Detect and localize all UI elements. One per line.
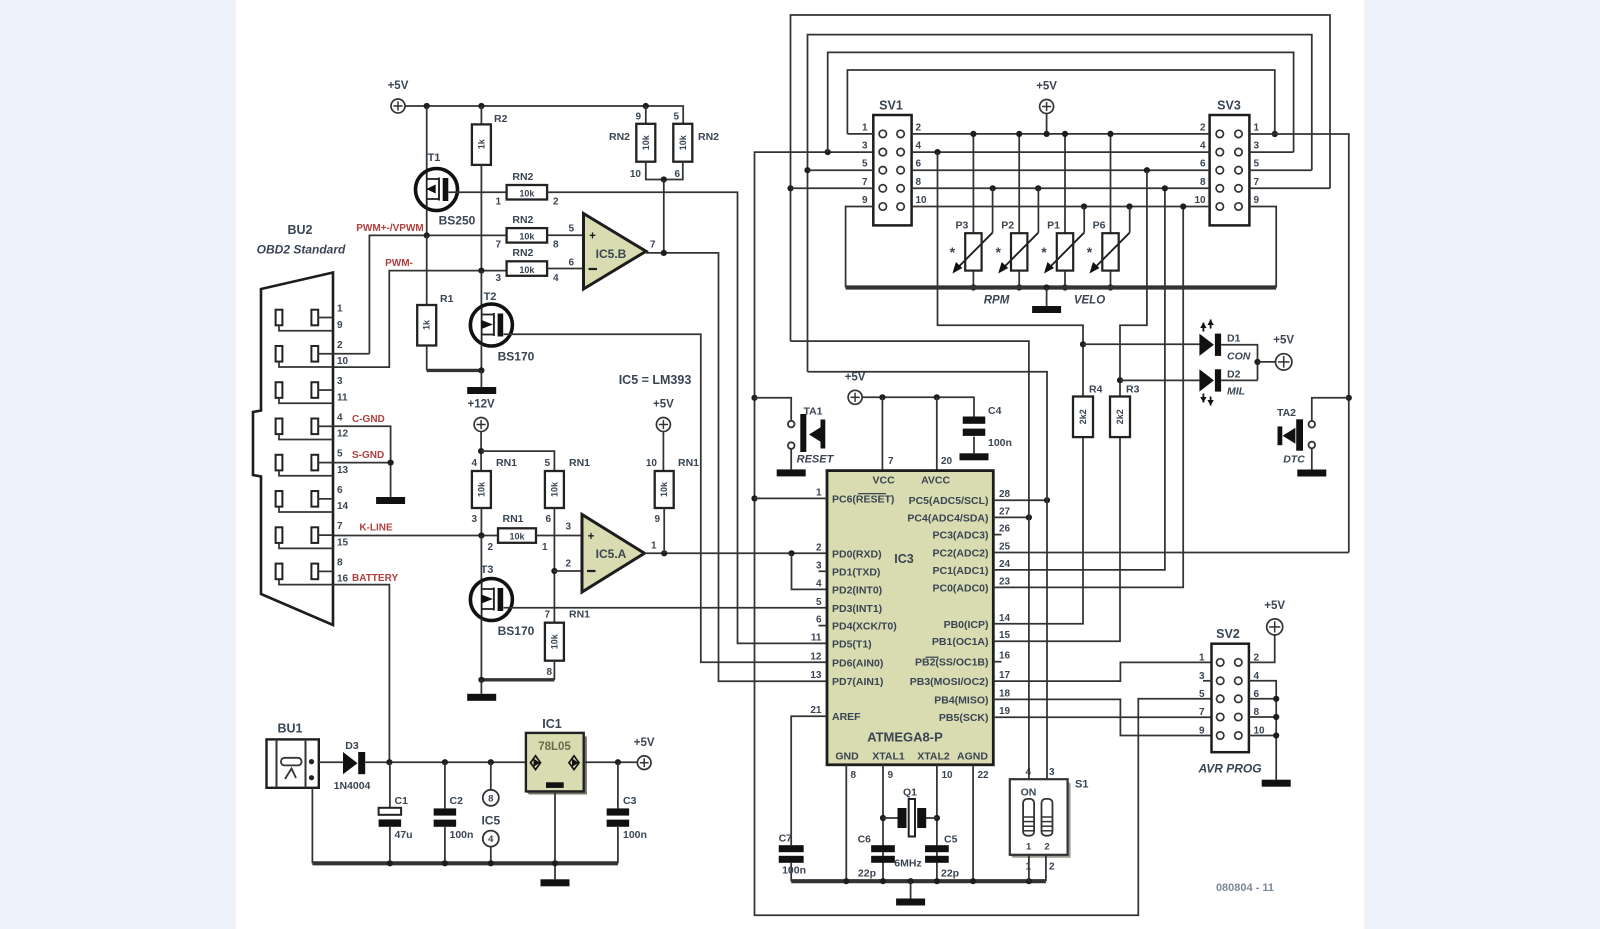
svg-text:1k: 1k <box>476 138 486 149</box>
connector BU2 OBD2 outline <box>253 273 333 626</box>
svg-text:P2: P2 <box>1001 220 1014 232</box>
svg-text:22p: 22p <box>858 868 876 880</box>
svg-text:1k: 1k <box>422 319 432 330</box>
svg-text:PWM-: PWM- <box>385 258 413 269</box>
svg-text:2: 2 <box>1200 122 1206 133</box>
SV1 pin circles row 1 <box>879 130 886 137</box>
LED D1 CON <box>1083 343 1199 345</box>
svg-text:3: 3 <box>337 376 343 387</box>
svg-text:78L05: 78L05 <box>538 741 571 753</box>
ground below pot bus <box>1046 288 1048 307</box>
svg-text:6: 6 <box>568 258 574 269</box>
svg-text:IC5: IC5 <box>481 814 500 828</box>
IC3 pin26 stub <box>993 534 1001 536</box>
wire +12V to RN1 tops <box>480 432 482 472</box>
wire BU2 pin5 S-GND <box>333 462 391 464</box>
svg-text:P1: P1 <box>1047 220 1060 232</box>
BU2 contact pair row 6 (pins 6/14) <box>276 491 283 507</box>
resistor network RN1 pins 4-3 10k <box>472 471 491 508</box>
svg-text:RPM: RPM <box>984 295 1010 307</box>
junction AVCC drop <box>934 394 940 400</box>
svg-text:10k: 10k <box>509 532 525 542</box>
junction IC5 ground <box>488 860 494 866</box>
svg-text:10k: 10k <box>659 481 669 497</box>
svg-text:8: 8 <box>337 557 343 568</box>
svg-text:R1: R1 <box>440 293 454 305</box>
wire PB5 pin19 SCK to SV2 pin7 <box>993 716 1211 718</box>
wire XTAL2 pin10 <box>936 765 938 881</box>
SV2 pin circles row 4 <box>1217 713 1224 720</box>
svg-text:10: 10 <box>337 356 349 367</box>
resistor R4 2k2 <box>1073 397 1093 438</box>
wire RN1-1 to IC5.A plus <box>536 535 582 537</box>
junction battery rail <box>386 759 392 765</box>
svg-text:1: 1 <box>495 197 501 208</box>
svg-text:3: 3 <box>471 514 477 525</box>
svg-text:BS250: BS250 <box>439 214 476 228</box>
svg-text:RN2: RN2 <box>512 247 533 259</box>
SV3 pin circles row 4 <box>1216 185 1223 192</box>
ground below T2 <box>480 370 482 387</box>
svg-text:2: 2 <box>565 559 571 570</box>
svg-text:*: * <box>950 244 956 260</box>
SV2 pin circles row 2 <box>1217 677 1224 684</box>
svg-text:PC1(ADC1): PC1(ADC1) <box>932 565 988 577</box>
svg-text:2: 2 <box>816 542 822 553</box>
resistor R2 1k <box>480 106 482 124</box>
svg-text:7: 7 <box>1199 707 1205 718</box>
svg-text:2: 2 <box>1044 842 1049 853</box>
svg-text:10: 10 <box>1194 195 1206 206</box>
junction LED +5V <box>1254 359 1260 365</box>
svg-text:*: * <box>1041 244 1047 260</box>
svg-text:10k: 10k <box>549 481 559 497</box>
wire AVCC pin20 <box>936 397 938 470</box>
wire +12V to RN1-5 <box>481 451 554 471</box>
junction C2 tap <box>442 759 448 765</box>
svg-text:PD4(XCK/T0): PD4(XCK/T0) <box>832 621 897 633</box>
potentiometer P6 <box>1110 134 1112 233</box>
svg-text:+5V: +5V <box>1036 81 1057 93</box>
svg-text:+5V: +5V <box>1273 335 1294 347</box>
connector SV3 <box>1210 115 1250 225</box>
wire RN1-9 to IC5.A output <box>663 508 665 553</box>
svg-text:1: 1 <box>1254 122 1260 133</box>
svg-text:1N4004: 1N4004 <box>334 780 371 792</box>
svg-text:PC3(ADC3): PC3(ADC3) <box>932 530 988 542</box>
wire RN1-8 bottom <box>553 661 555 680</box>
svg-text:7: 7 <box>337 521 343 532</box>
svg-text:7: 7 <box>544 610 550 621</box>
svg-text:+: + <box>588 531 595 543</box>
connector SV2 <box>1212 644 1249 753</box>
wire row SV1.6-SV3.6 <box>912 169 1210 171</box>
wire PB3 pin17 to SV2 pin1 <box>993 662 1211 681</box>
wire RN2-4 to IC5.B minus <box>547 268 583 270</box>
svg-text:T2: T2 <box>484 291 497 303</box>
wire TA2 to ground <box>1311 448 1313 469</box>
power +12V supply symbol <box>474 418 488 432</box>
ground C-GND/S-GND <box>376 497 405 504</box>
svg-text:10: 10 <box>916 195 928 206</box>
wire IC1 output to +5V <box>584 761 638 763</box>
svg-text:TA2: TA2 <box>1277 407 1296 419</box>
SV1 pin circles row 5 <box>879 203 886 210</box>
wire PC2 pin25 long <box>993 552 1349 554</box>
svg-text:9: 9 <box>888 770 894 781</box>
resistor network RN1 pins 10-9 10k <box>655 471 674 508</box>
svg-text:26: 26 <box>999 524 1011 535</box>
SV2 pin circles row 3 <box>1217 695 1224 702</box>
svg-text:BU2: BU2 <box>287 223 312 237</box>
wire BU2 pin2 to PWM+ <box>333 353 369 355</box>
svg-text:23: 23 <box>999 576 1011 587</box>
svg-text:19: 19 <box>999 706 1011 717</box>
svg-text:C6: C6 <box>858 834 872 846</box>
svg-text:PD3(INT1): PD3(INT1) <box>832 603 882 615</box>
junction ground bus <box>880 878 886 884</box>
svg-text:2: 2 <box>487 542 493 553</box>
wire S1 pin3 from pin28 net <box>1046 500 1048 779</box>
svg-text:9: 9 <box>862 195 868 206</box>
svg-text:080804 - 11: 080804 - 11 <box>1216 882 1274 894</box>
transistor T1 BS250 <box>426 106 428 170</box>
junction K-LINE node <box>478 532 484 538</box>
IC5 power pin 8 <box>490 762 492 790</box>
svg-text:RN2: RN2 <box>698 131 719 143</box>
capacitor C5 22p <box>925 845 949 852</box>
wire IC5.A minus <box>554 570 582 572</box>
svg-text:D3: D3 <box>345 740 359 752</box>
wire TA1 to ground <box>790 449 792 470</box>
svg-text:10k: 10k <box>549 633 559 649</box>
ground below TA1 <box>777 469 806 476</box>
wire SV2 pin2 to +5V <box>1249 635 1275 663</box>
svg-text:+5V: +5V <box>653 399 674 411</box>
BU2 contact pair row 8 (pins 8/16) <box>276 564 283 580</box>
svg-text:RN1: RN1 <box>678 457 699 469</box>
junction R3/D2 tap <box>1117 377 1123 383</box>
wire PC1 pin24 <box>993 188 1165 570</box>
BU2 contact pair row 7 (pins 7/15) <box>276 527 283 543</box>
svg-text:1: 1 <box>542 542 548 553</box>
svg-text:3: 3 <box>862 141 868 152</box>
ground symbol below IC3 bus <box>910 881 912 898</box>
wire row SV1.10-SV3.10 <box>912 206 1210 208</box>
LED D2 MIL <box>1120 379 1199 381</box>
junction PD0/PD2 branch <box>788 550 794 556</box>
svg-text:AGND: AGND <box>957 751 988 763</box>
svg-text:IC1: IC1 <box>542 717 562 731</box>
svg-text:7: 7 <box>495 240 501 251</box>
svg-text:9: 9 <box>1199 726 1205 737</box>
svg-text:1: 1 <box>816 487 822 498</box>
svg-text:DTC: DTC <box>1283 454 1305 466</box>
ground below SV2 <box>1262 780 1291 787</box>
junction row4 to R4 <box>934 149 940 155</box>
svg-text:4: 4 <box>1200 141 1206 152</box>
svg-text:PB2(SS/OC1B): PB2(SS/OC1B) <box>915 657 989 669</box>
svg-text:7: 7 <box>1254 177 1260 188</box>
BU2 contact pair row 3 (pins 3/11) <box>276 382 283 398</box>
svg-text:C7: C7 <box>779 833 793 845</box>
resistor network RN1 pins 5-6 10k <box>545 471 564 508</box>
svg-text:6: 6 <box>816 615 822 626</box>
SV3 pin circles row 5 <box>1216 203 1223 210</box>
IC3 pin16 stub <box>993 661 1001 663</box>
svg-text:6: 6 <box>916 159 922 170</box>
svg-text:*: * <box>1087 244 1093 260</box>
SV3 pin circles row 1 <box>1216 130 1223 137</box>
junction C3 tap <box>615 759 621 765</box>
pushbutton TA1 RESET <box>755 398 792 421</box>
svg-text:100n: 100n <box>782 865 806 877</box>
junction ground bus <box>843 878 849 884</box>
capacitor C4 100n <box>963 417 986 424</box>
svg-text:10: 10 <box>630 169 642 180</box>
svg-text:14: 14 <box>337 501 349 512</box>
IC3 pin6 stub <box>819 625 828 627</box>
resistor network RN2 pins 1-2 10k <box>507 185 547 200</box>
wire D3 to IC1 input rail <box>365 761 526 763</box>
wire VCC pin7 <box>881 397 883 470</box>
svg-text:5: 5 <box>862 159 868 170</box>
wire GND pin8 <box>845 765 847 881</box>
junction T3 source <box>478 677 484 683</box>
svg-text:AVR PROG: AVR PROG <box>1197 762 1261 776</box>
svg-text:IC5 = LM393: IC5 = LM393 <box>619 373 692 387</box>
svg-text:C-GND: C-GND <box>352 414 385 425</box>
resistor network RN2 pins 9-10 10k <box>645 106 647 124</box>
capacitor C2 100n <box>444 762 446 808</box>
junction row10 to PC0 <box>1180 203 1186 209</box>
wire AGND pin22 <box>972 765 974 881</box>
junction loop1 SV1 pin7 <box>787 185 793 191</box>
junction row8/P3 wiper <box>990 185 996 191</box>
svg-text:11: 11 <box>811 632 822 643</box>
junction TA2 net <box>1346 395 1352 401</box>
power +5V SV2 <box>1267 619 1283 635</box>
svg-text:2: 2 <box>553 197 559 208</box>
junction +5V/R2 <box>478 103 484 109</box>
wire row SV1.4-SV3.4 <box>912 151 1210 153</box>
svg-text:ATMEGA8-P: ATMEGA8-P <box>867 730 943 745</box>
junction R2/T2 on PWM- <box>478 268 484 274</box>
svg-text:PD7(AIN1): PD7(AIN1) <box>832 676 883 688</box>
capacitor C1 47u <box>389 762 391 808</box>
wire RN2 bottoms join <box>646 162 683 180</box>
svg-text:21: 21 <box>810 705 822 716</box>
svg-text:PD2(INT0): PD2(INT0) <box>832 584 882 596</box>
wire S1 pin2 to ground bus <box>1045 855 1047 881</box>
SV3 pin circles row 3 <box>1216 167 1223 174</box>
BU2 contact pair row 1 (pins 1/9) <box>276 310 283 326</box>
wire T3 drain to PD3 <box>504 607 828 609</box>
wire SV1.4 net to R4 top <box>938 152 1084 396</box>
wire SV3 pin9 to ground bus <box>1249 207 1276 288</box>
svg-text:D2: D2 <box>1227 369 1241 381</box>
BU2 contact pair row 4 (pins 4/12) <box>276 419 283 435</box>
svg-text:5: 5 <box>544 458 550 469</box>
wire PWM+/VPWM <box>369 235 506 353</box>
junction IC5 supply tap <box>488 759 494 765</box>
svg-text:18: 18 <box>999 688 1011 699</box>
wire loop4 SV1.1-SV3.1 <box>847 70 1274 134</box>
wire SV1 pin9 to ground bus <box>846 207 874 288</box>
svg-text:PB3(MOSI/OC2): PB3(MOSI/OC2) <box>910 676 989 688</box>
wire SV1.6 net to R3 top <box>1120 170 1147 396</box>
svg-text:10k: 10k <box>641 134 651 150</box>
svg-text:11: 11 <box>337 392 348 403</box>
svg-text:10k: 10k <box>476 481 486 497</box>
svg-text:2k2: 2k2 <box>1078 409 1088 424</box>
junction IC1 ground <box>552 860 558 866</box>
svg-text:XTAL1: XTAL1 <box>872 751 905 763</box>
IC5 power pin 4 <box>483 831 499 847</box>
wire branch to PD2 <box>792 553 828 589</box>
power +5V LEDs <box>1258 361 1276 363</box>
ground bus pots <box>846 285 1277 289</box>
svg-text:9: 9 <box>654 514 660 525</box>
op-amp IC5.B comparator <box>584 214 647 290</box>
svg-text:4: 4 <box>471 458 477 469</box>
wire S1 pin1 to ground bus <box>1028 855 1030 881</box>
svg-text:47u: 47u <box>395 829 413 841</box>
svg-text:T1: T1 <box>428 152 441 164</box>
svg-text:5: 5 <box>673 112 679 123</box>
svg-text:3: 3 <box>1049 767 1055 778</box>
svg-text:16: 16 <box>337 574 349 585</box>
capacitor C7 100n on AREF <box>791 716 827 845</box>
svg-text:S1: S1 <box>1075 779 1088 791</box>
svg-text:13: 13 <box>337 465 349 476</box>
svg-text:P3: P3 <box>955 220 968 232</box>
svg-text:RESET: RESET <box>797 454 835 466</box>
wire BU1 ground <box>311 788 313 864</box>
svg-text:6: 6 <box>545 514 551 525</box>
BU2 contact pair row 5 (pins 5/13) <box>276 455 283 471</box>
junction RN1-6 / IC5.A minus <box>551 568 557 574</box>
svg-text:PD1(TXD): PD1(TXD) <box>832 566 880 578</box>
resistor network RN1 pins 7-8 10k <box>545 623 564 661</box>
junction RESET/loop3 <box>825 149 831 155</box>
svg-text:AVCC: AVCC <box>921 475 950 487</box>
svg-text:PC6(RESET): PC6(RESET) <box>832 493 894 505</box>
junction C2 ground <box>442 860 448 866</box>
svg-text:9: 9 <box>1254 195 1260 206</box>
svg-text:1: 1 <box>1026 842 1032 853</box>
wire SV3 pin3 stub <box>1249 151 1293 153</box>
svg-text:PC5(ADC5/SCL): PC5(ADC5/SCL) <box>909 495 989 507</box>
svg-text:BS170: BS170 <box>498 624 535 638</box>
junction +5V/RN2 pin9 <box>643 103 649 109</box>
svg-text:100n: 100n <box>623 829 647 841</box>
wire T1 gate to RN2-1 <box>449 191 507 193</box>
svg-text:GND: GND <box>835 751 859 763</box>
transistor T2 BS170 <box>480 271 482 306</box>
svg-text:BU1: BU1 <box>277 722 302 736</box>
wire SV3 pin1 to PC2 net <box>1249 134 1348 553</box>
svg-text:10k: 10k <box>678 134 688 150</box>
svg-text:10: 10 <box>942 770 954 781</box>
junction S-GND <box>388 459 394 465</box>
wire PWM- <box>333 271 507 367</box>
svg-text:1: 1 <box>862 122 868 133</box>
wire PB4 pin18 MISO to SV2 pin9 <box>993 699 1211 735</box>
svg-text:5: 5 <box>1254 159 1260 170</box>
svg-text:PD5(T1): PD5(T1) <box>832 638 872 650</box>
resistor R1 1k <box>426 235 428 305</box>
potentiometer P3 <box>972 134 974 233</box>
resistor network RN1 pins 2-1 10k horizontal <box>498 528 536 543</box>
svg-text:2: 2 <box>337 340 343 351</box>
svg-text:C2: C2 <box>450 795 464 807</box>
svg-text:3: 3 <box>816 560 822 571</box>
svg-text:PWM+-/VPWM: PWM+-/VPWM <box>356 223 424 234</box>
wire IC5.A output to PD0 <box>645 552 828 554</box>
svg-text:4: 4 <box>488 834 494 845</box>
junction RESET/TA1 <box>751 395 757 401</box>
svg-text:SV2: SV2 <box>1216 627 1240 641</box>
svg-text:RN2: RN2 <box>512 171 533 183</box>
wire SV3 pin7 stub <box>1249 187 1330 189</box>
svg-text:AREF: AREF <box>832 711 861 723</box>
svg-text:R2: R2 <box>494 113 508 125</box>
junction T2 source <box>478 367 484 373</box>
svg-text:100n: 100n <box>450 829 474 841</box>
svg-text:C3: C3 <box>623 795 637 807</box>
svg-text:PC4(ADC4/SDA): PC4(ADC4/SDA) <box>907 512 988 524</box>
junction loop4 SV3 pin1 <box>1272 131 1278 137</box>
wire +5V to RN1-10 <box>662 432 664 472</box>
ground symbol below IC1 <box>541 879 570 886</box>
svg-text:5: 5 <box>568 224 574 235</box>
svg-text:15: 15 <box>999 630 1011 641</box>
svg-text:PB1(OC1A): PB1(OC1A) <box>932 636 989 648</box>
svg-text:SV1: SV1 <box>879 99 903 113</box>
svg-text:9: 9 <box>337 320 343 331</box>
svg-text:22: 22 <box>978 770 990 781</box>
svg-text:5: 5 <box>1199 689 1205 700</box>
power +5V supply symbol (top left) <box>391 99 405 113</box>
SV2 pin circles row 5 <box>1217 732 1224 739</box>
svg-text:6: 6 <box>1200 159 1206 170</box>
svg-text:RN1: RN1 <box>569 457 590 469</box>
junction ground bus <box>934 878 940 884</box>
svg-text:28: 28 <box>999 489 1011 500</box>
svg-text:T3: T3 <box>481 564 494 576</box>
wire SV2 pin6 <box>1249 698 1276 700</box>
IC IC3 ATMEGA8-P <box>827 471 993 765</box>
svg-text:R3: R3 <box>1126 384 1140 396</box>
svg-text:4: 4 <box>337 412 343 423</box>
junction row6 to R3 <box>1144 167 1150 173</box>
wire XTAL1 pin9 <box>882 765 884 881</box>
svg-text:2: 2 <box>916 122 922 133</box>
svg-text:PB5(SCK): PB5(SCK) <box>939 712 989 724</box>
wire +5V to row <box>1046 114 1048 134</box>
svg-text:5: 5 <box>816 597 822 608</box>
svg-text:RN2: RN2 <box>512 214 533 226</box>
svg-text:22p: 22p <box>941 868 959 880</box>
svg-text:PD0(RXD): PD0(RXD) <box>832 548 882 560</box>
wire BU1 to D3 <box>319 761 343 763</box>
ground bus bottom left <box>312 861 618 865</box>
wire PB0 pin14 to R4 <box>993 437 1083 624</box>
ground bus below IC3 <box>791 879 1046 883</box>
svg-text:P6: P6 <box>1093 220 1106 232</box>
capacitor C3 100n <box>617 762 619 808</box>
